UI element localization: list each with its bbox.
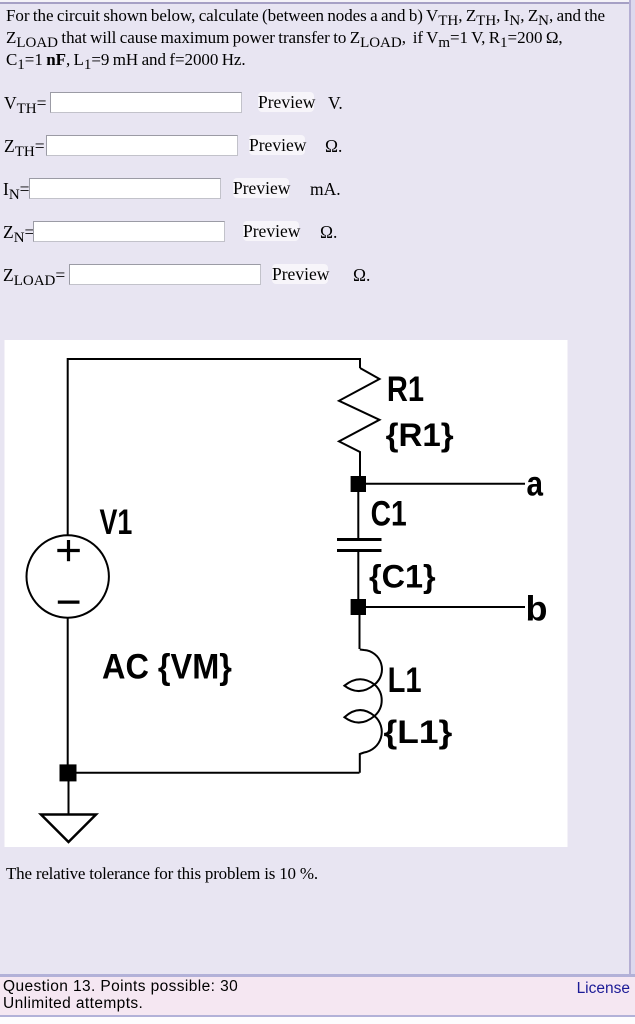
bottom node junction square bbox=[60, 764, 77, 781]
svg-text:{L1}: {L1} bbox=[384, 714, 453, 750]
svg-text:{R1}: {R1} bbox=[386, 417, 454, 453]
svg-text:a: a bbox=[527, 464, 544, 503]
node a junction square bbox=[351, 476, 366, 492]
ground triangle bbox=[41, 815, 96, 843]
row 5 ZLOAD bbox=[3, 265, 65, 286]
V1 minus sign bbox=[58, 600, 80, 603]
svg-text:{C1}: {C1} bbox=[369, 558, 436, 594]
row 1 VTH bbox=[4, 93, 47, 114]
svg-text:C1: C1 bbox=[371, 495, 407, 534]
inductor L1 loop 2 bbox=[344, 710, 374, 723]
svg-text:R1: R1 bbox=[387, 370, 424, 409]
row 4 ZN bbox=[3, 222, 34, 243]
svg-text:V1: V1 bbox=[100, 503, 133, 542]
wire bottom bbox=[68, 772, 360, 774]
svg-text:L1: L1 bbox=[388, 661, 422, 700]
capacitor C1 bbox=[337, 540, 382, 551]
tolerance bbox=[6, 864, 318, 884]
wire b to inductor bbox=[359, 615, 361, 649]
inductor L1 loop 1 bbox=[344, 679, 374, 691]
resistor R1 bbox=[339, 368, 380, 476]
node b junction square bbox=[351, 599, 366, 615]
wire V1 bottom bbox=[67, 618, 69, 765]
svg-text:AC {VM}: AC {VM} bbox=[102, 648, 232, 687]
wire cap to node b bbox=[357, 552, 359, 599]
voltage source V1 circle bbox=[26, 535, 108, 617]
circuit white background box bbox=[5, 340, 568, 847]
wire node b right bbox=[366, 606, 525, 608]
V1 plus sign bbox=[57, 540, 80, 561]
wire node a right bbox=[366, 483, 525, 485]
wire node a to cap bbox=[357, 492, 359, 538]
question text bbox=[6, 5, 605, 71]
ground stem bbox=[68, 781, 70, 814]
row 2 ZTH bbox=[4, 136, 45, 157]
svg-text:b: b bbox=[526, 590, 548, 629]
bottom bar bbox=[0, 974, 635, 977]
inductor L1 bbox=[360, 650, 382, 773]
top border bbox=[0, 0, 635, 2]
row 3 IN bbox=[3, 179, 30, 200]
wire top bbox=[68, 359, 360, 536]
